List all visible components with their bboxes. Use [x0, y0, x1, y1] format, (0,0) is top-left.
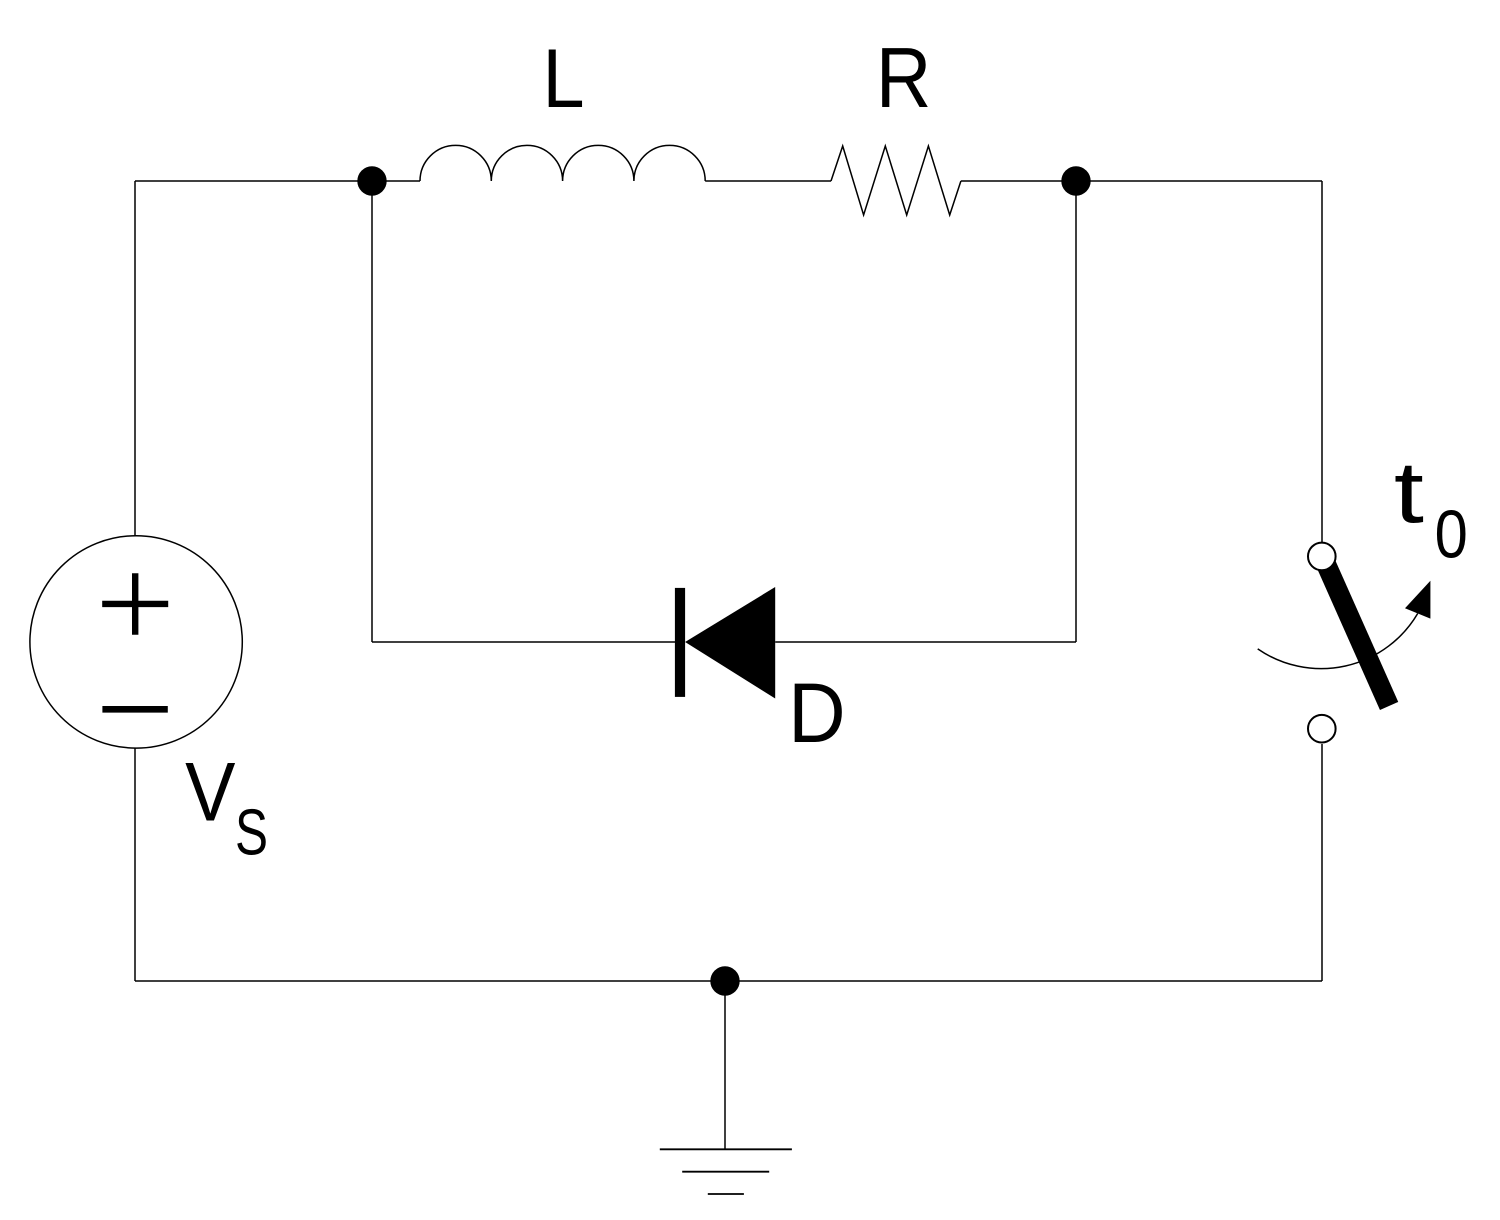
- wire: inductor end to resistor start: [705, 180, 831, 182]
- label VS: [185, 745, 268, 869]
- resistor R: [831, 146, 961, 215]
- ground symbol: [660, 1149, 792, 1194]
- label D: [788, 667, 846, 761]
- switch top terminal circle: [1308, 543, 1336, 571]
- svg-text:D: D: [788, 667, 846, 761]
- svg-text:0: 0: [1435, 496, 1468, 572]
- inductor L: [420, 145, 705, 181]
- wire: node B to top-right corner: [1076, 180, 1322, 182]
- wire: inner-loop left corner to diode cathode: [372, 641, 675, 643]
- switch bottom terminal circle: [1308, 715, 1336, 743]
- wire: switch bottom terminal to bottom-right corner: [1321, 744, 1323, 981]
- wire top-left: node A to top-left corner: [135, 180, 372, 182]
- wire bottom-left: bottom-left corner to ground node: [135, 980, 725, 982]
- wire right vertical: top-right corner to switch top terminal: [1321, 181, 1323, 543]
- wire: node A to inductor start: [372, 180, 420, 182]
- wire left vertical: top-left corner down to source top: [134, 181, 136, 536]
- switch SW blade: [1326, 564, 1389, 706]
- switch arc: [1258, 614, 1418, 669]
- diode D triangle: [685, 587, 775, 699]
- label t0: [1394, 444, 1468, 573]
- svg-text:V: V: [185, 745, 235, 838]
- ground stem wire: [724, 981, 726, 1149]
- svg-text:S: S: [235, 797, 268, 869]
- svg-text:R: R: [876, 30, 931, 126]
- svg-text:L: L: [543, 31, 585, 124]
- wire left vertical: source bottom to bottom-left corner: [134, 748, 136, 981]
- node B junction dot: [1061, 166, 1090, 195]
- switch arrowhead: [1405, 581, 1430, 619]
- wire inner-loop left vertical: node A down to diode row: [371, 181, 373, 642]
- node C ground junction dot: [710, 966, 739, 995]
- label L: [543, 31, 585, 124]
- diode D cathode bar: [675, 588, 685, 697]
- minus sign: [102, 706, 167, 713]
- wire bottom-right: ground node to bottom-right corner: [725, 980, 1322, 982]
- svg-text:t: t: [1394, 444, 1424, 541]
- node A junction dot: [357, 166, 386, 195]
- voltage source VS circle: [30, 536, 242, 748]
- wire inner-loop right vertical: node B down to diode row: [1075, 181, 1077, 642]
- plus sign: [102, 573, 168, 635]
- label R: [876, 30, 931, 126]
- wire: resistor end to node B: [961, 180, 1076, 182]
- wire: diode anode to inner-loop right corner: [775, 641, 1076, 643]
